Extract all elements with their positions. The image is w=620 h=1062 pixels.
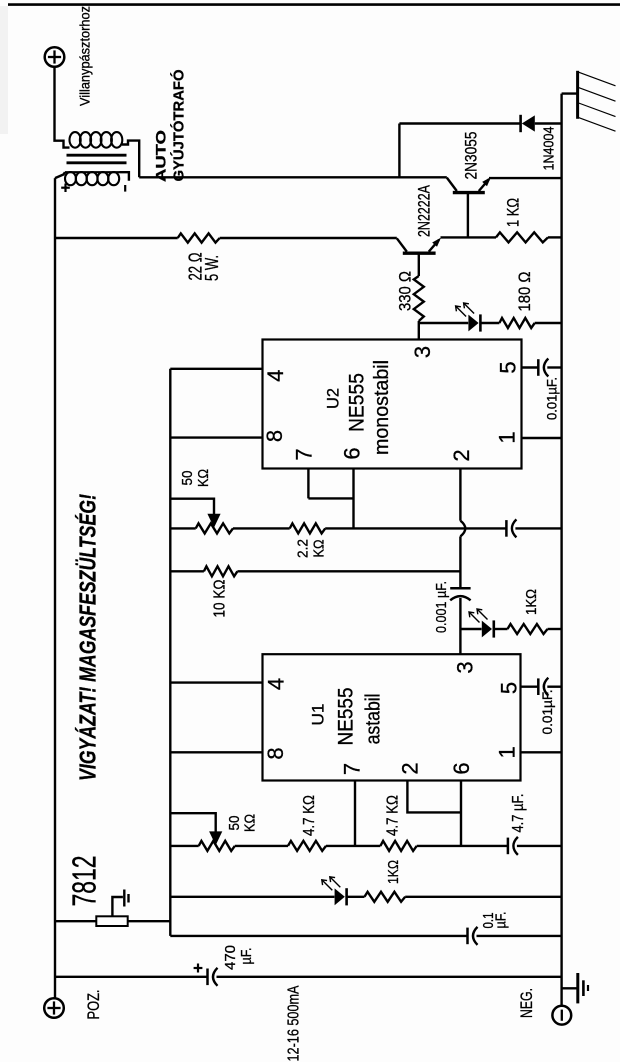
label AUTO [153,130,168,182]
wire 22ohm row right to Q2 collector [220,237,397,239]
wire C6 to rail [477,935,562,937]
svg-text:2: 2 [397,762,422,774]
wire U2 pin7 stem [307,469,309,499]
svg-text:POZ.: POZ. [85,990,103,1020]
wire R7 to rail [548,628,562,630]
svg-text:0.01µF.: 0.01µF. [540,690,555,735]
svg-text:GYÚJTÓTRAFÓ: GYÚJTÓTRAFÓ [170,70,188,182]
svg-text:4.7 KΩ: 4.7 KΩ [384,795,401,836]
wire node B LED row [419,322,468,324]
pin 8 label U1 [263,747,288,759]
svg-text:470: 470 [222,945,239,970]
label 0.01µF. (C4) [540,690,555,735]
label 180 Ω [515,272,534,312]
wire node A up to diode row [398,124,400,178]
wire bottom rail b [217,976,562,978]
svg-text:2N2222A: 2N2222A [415,185,433,237]
label 5 W. [202,255,222,281]
wire diode to right rail [535,122,562,124]
resistor R2 1 KΩ [496,232,548,242]
wire row936 a [170,935,467,937]
pin 2 label U1 [397,762,422,774]
svg-text:50: 50 [226,816,243,831]
label + (C7) [194,964,203,973]
wire U3 to bus [128,920,171,922]
svg-text:7: 7 [291,448,316,460]
capacitor C5 4.7µF [508,837,518,855]
wire node A horizontal [139,176,447,178]
wire row846 c [326,845,380,847]
label 22 Ω [185,253,205,281]
pin 6 label U2 [339,447,364,459]
label U1 [310,704,328,726]
label NEG. [518,988,536,1018]
label 50 (P2) [226,816,243,831]
ground symbol [578,973,588,1003]
wire rail to U3 [55,920,96,922]
svg-text:0.001 µF.: 0.001 µF. [434,581,450,633]
label 0.001 µF. [434,581,450,633]
wire U2 pin4 [170,368,262,370]
potentiometer P1 50KΩ [196,523,233,533]
wire ground stub [562,987,578,989]
wire primary + to left rail [55,172,65,178]
resistor R1 22Ω 5W [178,233,220,242]
wire R3 to node B [418,321,420,340]
LED D4 [322,877,347,906]
svg-text:6: 6 [339,447,364,459]
wire D2 to R4 [480,322,499,324]
svg-text:3: 3 [452,661,477,673]
wire P2 wiper [170,813,215,833]
label 10 KΩ [211,579,228,617]
pin 7 label U1 [340,763,365,775]
wire J1 to transformer [55,67,70,148]
svg-text:8: 8 [263,747,288,759]
svg-text:50: 50 [179,471,196,486]
transistor Q1 2N3055 [447,177,491,193]
svg-text:10 KΩ: 10 KΩ [211,579,228,617]
resistor R3 330Ω [414,276,424,321]
label 1KΩ (R7) [523,589,540,615]
svg-text:monostabil: monostabil [371,360,393,455]
svg-text:4.7 KΩ: 4.7 KΩ [301,795,318,836]
wire U1 pin5 [521,686,539,688]
transistor Q2 2N2222A [397,238,441,254]
wire rail to earth [562,92,578,94]
pin 5 label U1 [496,682,521,694]
label U2 [325,388,343,409]
wire C3 to LED row [459,598,461,629]
wire row528 b [233,527,290,529]
label KΩ (P1) [195,469,212,487]
svg-text:4: 4 [263,678,288,690]
wire U2 pin1 [522,437,562,439]
transformer TR1 primary winding [65,172,120,185]
svg-text:4.7 µF.: 4.7 µF. [510,794,527,833]
wire U1 pin2 stem [407,781,461,813]
LED D3 [469,609,494,638]
LED D2 [456,303,481,332]
pin 5 label U2 [495,361,520,373]
label 1N4004 [541,127,558,171]
U3 ground pin [112,890,128,917]
label - primary [124,185,126,192]
label astabil [363,693,385,744]
wire row528 c [325,527,506,529]
svg-text:1 KΩ: 1 KΩ [504,198,523,227]
wire Q1 emitter to rail [489,177,562,179]
left rail [54,178,56,998]
label 1KΩ (R10) [385,860,402,884]
wire node to U1 pin3 [459,629,461,654]
svg-text:180 Ω: 180 Ω [515,272,534,312]
svg-text:NE555: NE555 [335,688,358,746]
capacitor C6 0.1µF [468,927,478,945]
earth electrode symbol [578,71,616,131]
label Villanypásztorhoz [77,6,92,106]
op-amp U2 NE555 monostabil box [263,340,522,469]
svg-text:5: 5 [495,361,520,373]
capacitor C1 0.01µF [538,359,548,377]
pin 1 label U1 [495,746,520,758]
svg-text:2N3055: 2N3055 [462,132,480,180]
wire primary - end [120,172,129,181]
wire diode row left [399,122,520,124]
wire row846 a [170,845,198,847]
svg-text:0.01µF.: 0.01µF. [544,377,559,420]
wire row528 a [170,527,195,529]
terminal J1 + (fence output) [45,47,65,67]
svg-text:astabil: astabil [363,693,385,744]
svg-text:7: 7 [340,763,365,775]
label µF. (C7) [238,948,255,965]
svg-text:VIGYÁZAT! MAGASFESZÜLTSÉG!: VIGYÁZAT! MAGASFESZÜLTSÉG! [73,494,100,781]
wire D3 to R7 [494,628,508,630]
svg-text:µF.: µF. [238,948,255,965]
wire 22ohm row left [55,237,178,239]
label NE555 (U2) [345,373,368,432]
svg-text:6: 6 [449,762,474,774]
wire bottom rail a [55,976,208,978]
wire Q2 emitter row [441,236,497,238]
label 0.1 (C6) [480,913,497,929]
svg-text:AUTO: AUTO [153,130,168,182]
diode D1 1N4004 [521,115,535,132]
wire U1 pin4 [170,681,262,683]
wire bus vertical [169,369,171,936]
wire U2 pin6 stem [352,469,354,529]
wire pin7-pin6 link [308,497,353,499]
label VIGYÁZAT! MAGASFESZÜLTSÉG! [73,494,100,781]
wire row846 d [417,845,508,847]
wire row846 b [235,845,288,847]
wire C5 to rail [517,845,562,847]
svg-text:1KΩ: 1KΩ [385,860,402,884]
label 1 KΩ [504,198,523,227]
svg-text:5: 5 [496,682,521,694]
pin 1 label U2 [495,431,520,443]
wire LED row a [460,628,481,630]
label GYÚJTÓTRAFÓ [170,70,188,182]
left page edge shading [0,6,8,134]
wire U1 pin8 [170,751,262,753]
op-amp U1 NE555 astabil box [263,654,521,780]
svg-text:330 Ω: 330 Ω [396,271,415,311]
right rail [560,94,562,1006]
wire Q2 base stem [418,253,420,276]
pin 4 label U2 [263,370,288,382]
resistor R10 1KΩ [365,892,406,902]
label NE555 (U1) [335,688,358,746]
wire R10 to rail [405,896,561,898]
label 2.2 [294,539,311,558]
capacitor C3 0.001µF [450,588,470,600]
wire row571 b [237,570,460,572]
wire D4 to R10 [347,896,365,898]
svg-text:U2: U2 [325,388,343,409]
P2 wiper arrow [209,831,222,845]
wire U2 pin8 [170,436,262,438]
svg-text:KΩ: KΩ [195,469,212,487]
capacitor C2 [506,519,516,537]
svg-text:12-16 500mA: 12-16 500mA [286,985,303,1062]
svg-text:µF.: µF. [492,912,509,929]
pin 7 label U2 [291,448,316,460]
wire U1 pin6 stem [460,781,462,846]
label 50 (P1) [179,471,196,486]
regulator U3 7812 box [96,916,127,926]
wire secondary to node A [122,141,139,178]
svg-text:1: 1 [495,431,520,443]
wire R2 to rail [548,236,562,238]
page top border [8,3,620,6]
label 4.7 KΩ (R8) [301,795,318,836]
wire Q1 base stem [467,193,469,238]
svg-text:U1: U1 [310,704,328,726]
label POZ. [85,990,103,1020]
svg-text:3: 3 [410,346,435,358]
label 330 Ω [396,271,415,311]
wire C2 to rail [515,527,561,529]
resistor R6 10 KΩ [204,566,238,576]
wire row571 a [170,570,204,572]
pin 3 label U2 [410,346,435,358]
wire U1 pin1 [521,751,562,753]
label 470 [222,945,239,970]
svg-text:Villanypásztorhoz: Villanypásztorhoz [77,6,92,106]
label + primary [61,184,70,193]
label 7812 [65,856,102,907]
pin 8 label U2 [262,430,287,442]
wire row897 a [170,896,334,898]
pin 6 label U1 [449,762,474,774]
svg-text:NE555: NE555 [345,373,368,432]
resistor R7 1KΩ [508,624,548,634]
wire R4 to rail [535,322,562,324]
label monostabil [371,360,393,455]
label 4.7 KΩ (R9) [384,795,401,836]
wire hop over row [460,521,465,537]
resistor R9 4.7 KΩ [380,841,416,851]
label 0.01µF. (C1) [544,377,559,420]
svg-text:5 W.: 5 W. [202,255,222,281]
terminal POZ + [44,998,64,1018]
terminal NEG - [552,1006,571,1025]
pin 3 label U1 [452,661,477,673]
svg-text:1: 1 [495,746,520,758]
wire P1 wiper [170,499,214,516]
label 2N3055 [462,132,480,180]
resistor R5 2.2 KΩ [290,523,326,533]
label 4.7 µF. [510,794,527,833]
label KΩ (P2) [241,814,258,832]
pin 2 label U2 [449,449,474,461]
svg-text:KΩ: KΩ [310,540,327,558]
svg-text:8: 8 [262,430,287,442]
wire C4 to rail [547,686,561,688]
svg-text:KΩ: KΩ [241,814,258,832]
svg-text:7812: 7812 [65,856,102,907]
wire U1 pin7 stem [354,781,356,846]
label 12-16 500mA [286,985,303,1062]
resistor R4 180Ω [499,318,534,328]
potentiometer P2 50KΩ [199,841,235,851]
capacitor C4 0.01µF [538,678,548,696]
svg-text:2.2: 2.2 [294,539,311,558]
resistor R8 4.7 KΩ [288,841,326,851]
wire U2 pin2 stem lower [459,536,461,588]
wire C1 to rail [547,366,561,368]
svg-text:2: 2 [449,449,474,461]
svg-text:NEG.: NEG. [518,988,536,1018]
wire U2 pin5 [522,366,539,368]
label 2N2222A [415,185,433,237]
label µF. (C6) [492,912,509,929]
svg-text:1KΩ: 1KΩ [523,589,540,615]
capacitor C7 470µF [208,968,218,986]
transformer TR1 core [67,155,127,163]
P1 wiper arrow [207,514,220,528]
pin 4 label U1 [263,678,288,690]
svg-text:1N4004: 1N4004 [541,127,558,171]
svg-text:4: 4 [263,370,288,382]
label KΩ (R5) [310,540,327,558]
wire U2 pin2 stem [459,469,461,521]
transformer TR1 secondary winding [70,132,123,148]
